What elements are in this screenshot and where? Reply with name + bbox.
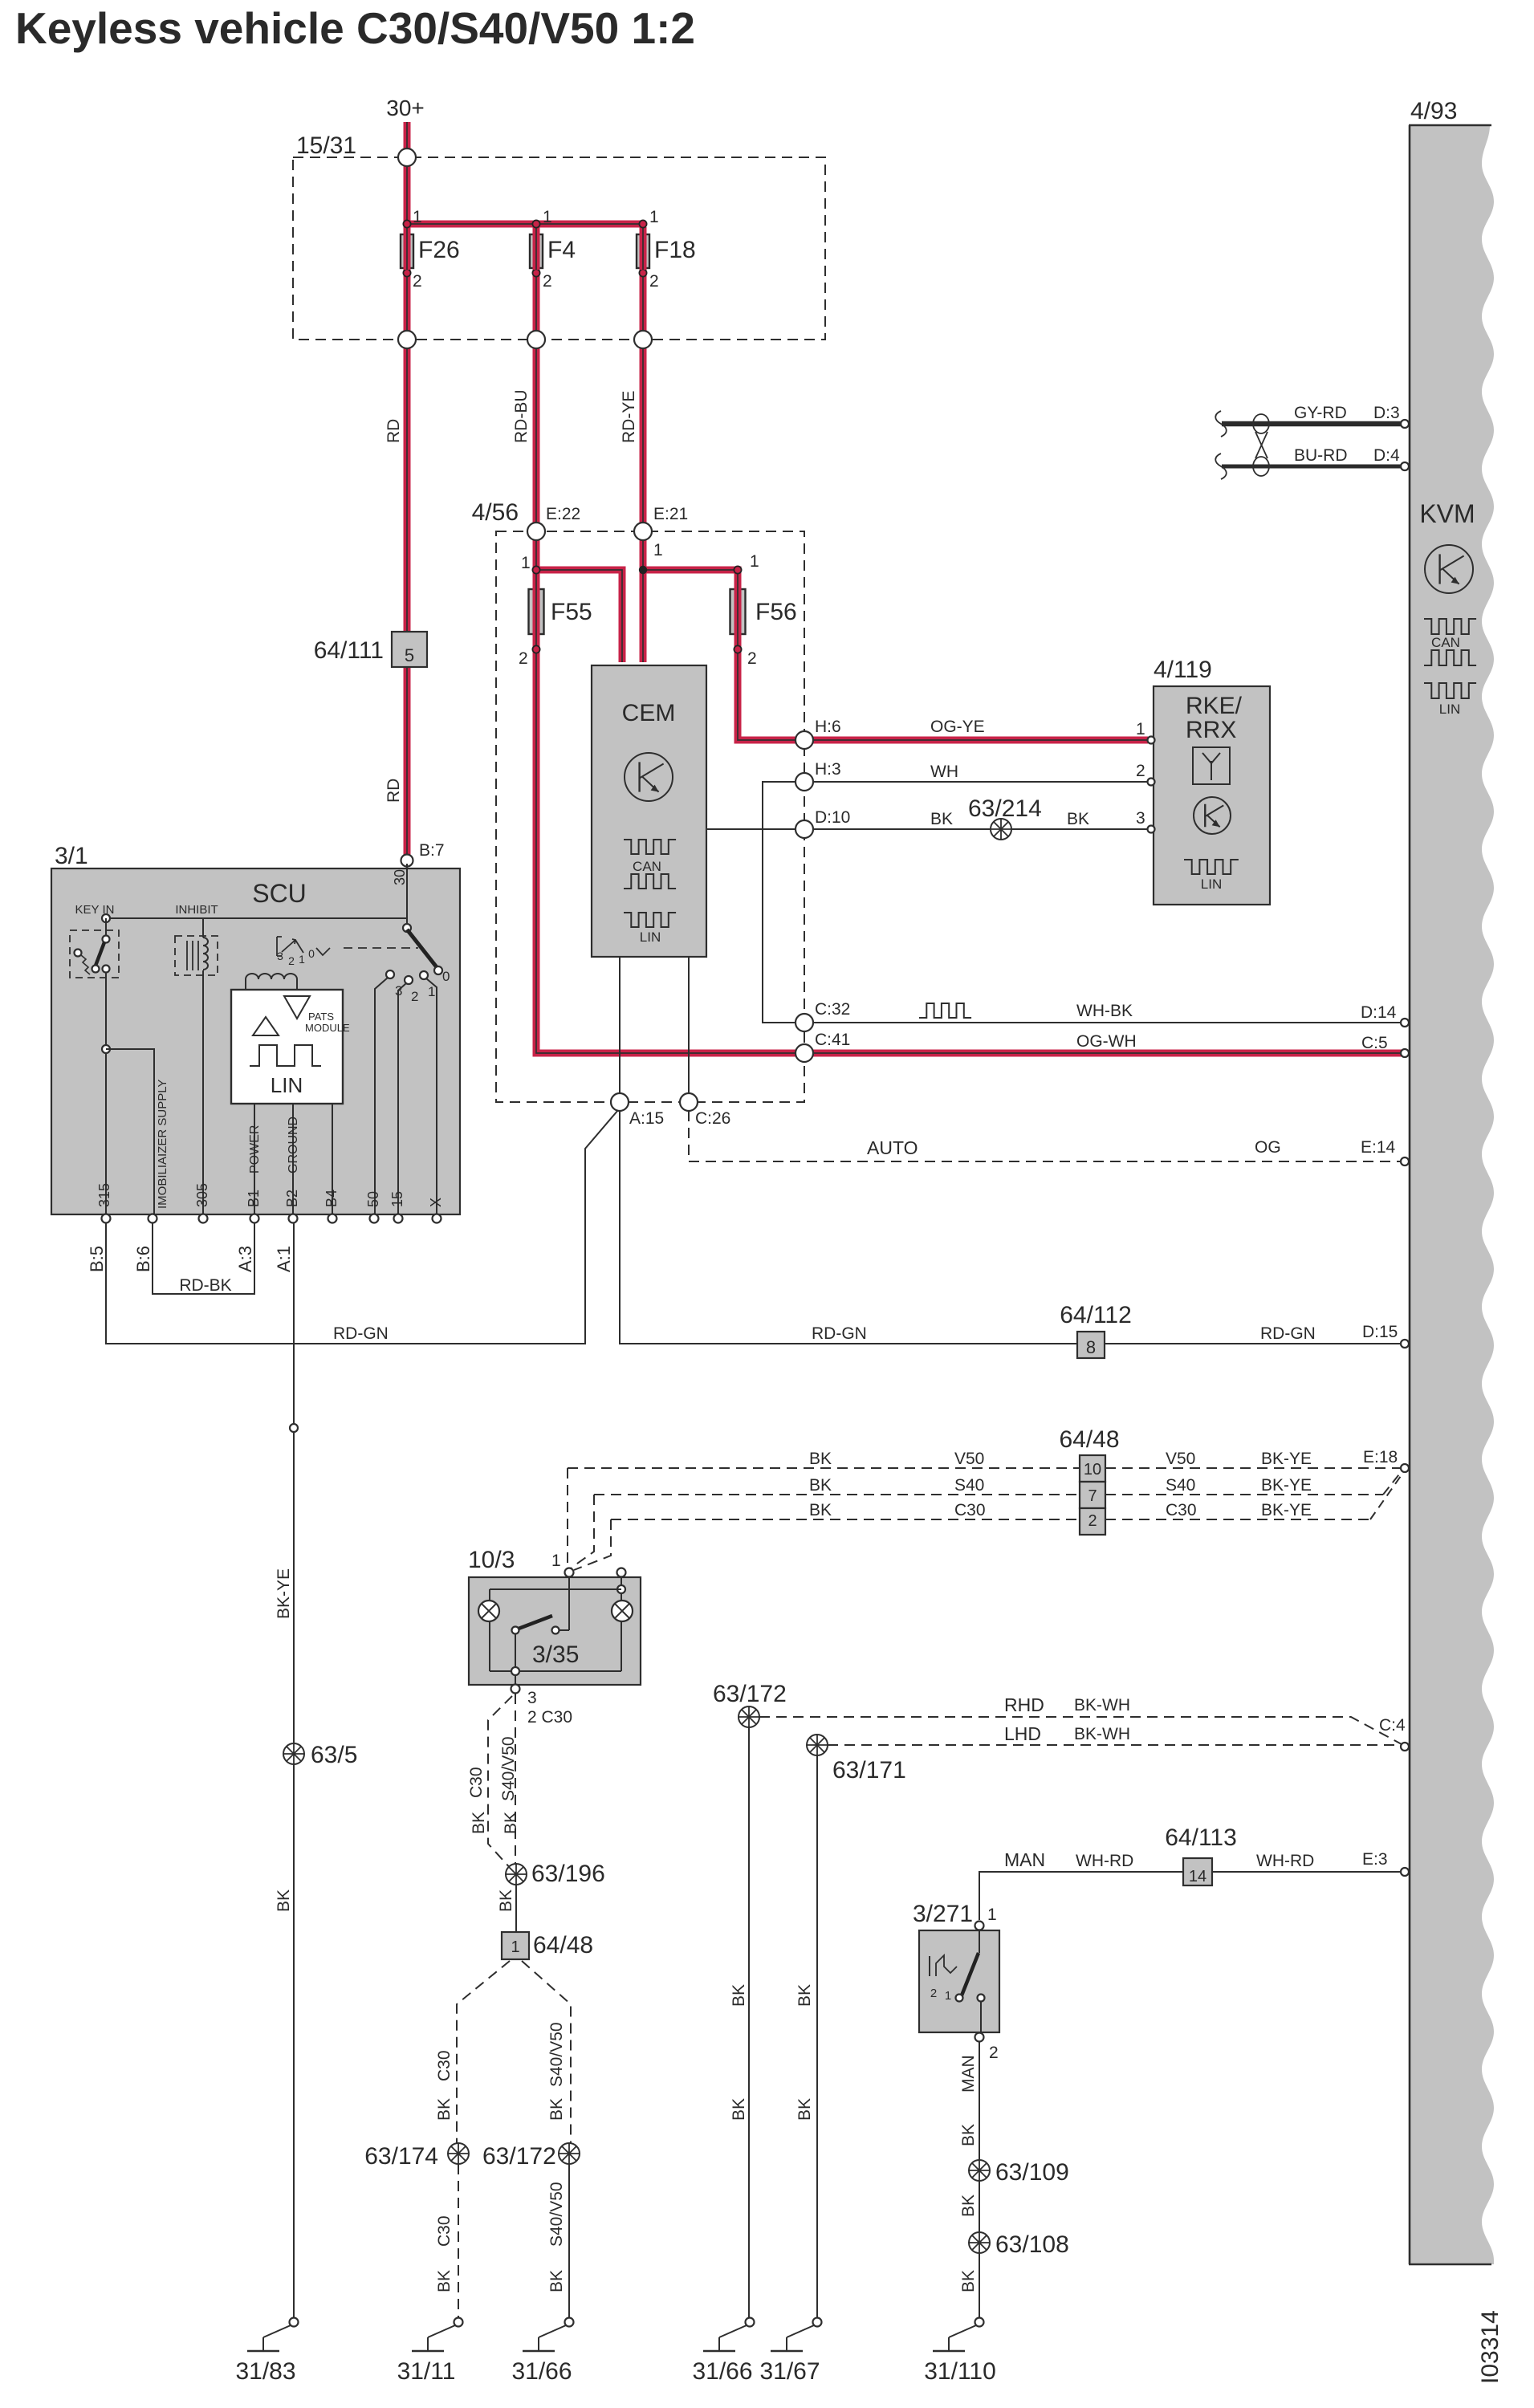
svg-text:F18: F18 xyxy=(654,237,696,263)
splice 63/172 upper xyxy=(739,1706,759,1727)
node E:22 xyxy=(527,523,545,540)
svg-text:LIN: LIN xyxy=(640,929,661,945)
svg-text:BK-YE: BK-YE xyxy=(1261,1450,1312,1468)
wire CEM to C:26 xyxy=(688,957,690,1096)
ground 31/110 xyxy=(975,2318,984,2327)
KVM pin D:15 xyxy=(1401,1340,1409,1348)
svg-text:LHD: LHD xyxy=(1004,1723,1041,1744)
svg-text:1: 1 xyxy=(750,552,759,571)
svg-text:LIN: LIN xyxy=(1439,702,1460,717)
svg-text:Keyless vehicle C30/S40/V50 1:: Keyless vehicle C30/S40/V50 1:2 xyxy=(15,3,695,53)
wire 30+ feed RD main vertical xyxy=(404,122,411,856)
splice 63/214 xyxy=(991,819,1011,840)
svg-text:14: 14 xyxy=(1189,1868,1206,1885)
svg-text:C:41: C:41 xyxy=(815,1031,850,1049)
svg-text:5: 5 xyxy=(405,645,414,665)
svg-text:C30: C30 xyxy=(1166,1501,1197,1519)
splice 63/171 xyxy=(807,1735,828,1755)
wire through fuse F26 xyxy=(404,233,411,270)
svg-text:1: 1 xyxy=(428,984,435,999)
node C:26 xyxy=(680,1093,698,1111)
svg-text:I03314: I03314 xyxy=(1477,2310,1503,2384)
svg-text:OG: OG xyxy=(1255,1138,1281,1157)
svg-text:RD: RD xyxy=(385,779,403,803)
svg-text:KEY IN: KEY IN xyxy=(75,903,115,917)
svg-text:2: 2 xyxy=(649,272,659,291)
RKE antenna symbol xyxy=(1193,747,1230,784)
svg-text:CAN: CAN xyxy=(633,859,661,874)
svg-text:63/196: 63/196 xyxy=(531,1861,605,1887)
immobiliser supply branch xyxy=(106,1049,154,1214)
svg-text:B:7: B:7 xyxy=(419,841,445,860)
svg-text:H:6: H:6 xyxy=(815,718,841,736)
svg-text:3/271: 3/271 xyxy=(913,1901,973,1927)
ground 31/67 xyxy=(813,2318,822,2327)
svg-text:D:15: D:15 xyxy=(1362,1323,1398,1341)
svg-text:CAN: CAN xyxy=(1431,635,1460,650)
wire BK from 63/172 to ground xyxy=(748,1727,750,2317)
twisted pair symbol xyxy=(1253,414,1269,433)
wire BK from 63/171 to ground xyxy=(816,1755,818,2317)
svg-text:BK: BK xyxy=(809,1450,832,1468)
svg-text:S40/V50: S40/V50 xyxy=(547,2182,566,2247)
svg-text:31/66: 31/66 xyxy=(511,2358,572,2385)
SCU internal feed line from B:7 xyxy=(406,864,408,928)
svg-text:31/66: 31/66 xyxy=(692,2358,752,2385)
svg-text:2: 2 xyxy=(989,2044,999,2062)
svg-text:64/113: 64/113 xyxy=(1165,1824,1237,1851)
svg-text:LIN: LIN xyxy=(1201,877,1222,892)
PATS module box xyxy=(231,990,343,1104)
svg-text:BK: BK xyxy=(435,2270,454,2292)
fuse F4 xyxy=(532,220,539,227)
svg-text:RD-GN: RD-GN xyxy=(812,1324,867,1343)
svg-text:F26: F26 xyxy=(418,237,460,263)
svg-text:2: 2 xyxy=(1088,1512,1097,1530)
KVM key symbol xyxy=(1425,545,1473,593)
nodes at 15/31 bottom xyxy=(398,331,416,348)
svg-text:MODULE: MODULE xyxy=(305,1022,350,1034)
svg-text:4/93: 4/93 xyxy=(1410,98,1457,124)
svg-text:1: 1 xyxy=(521,554,531,572)
svg-text:BK: BK xyxy=(275,1889,293,1912)
svg-text:WH-BK: WH-BK xyxy=(1076,1002,1133,1020)
svg-text:RHD: RHD xyxy=(1004,1694,1044,1715)
svg-text:31/83: 31/83 xyxy=(235,2358,295,2385)
10/3 pin top right xyxy=(617,1568,626,1577)
wire RD-BK loop xyxy=(153,1222,254,1294)
svg-text:63/171: 63/171 xyxy=(832,1757,906,1784)
svg-text:1: 1 xyxy=(299,953,305,966)
wire BK to 64/48 pin1 xyxy=(515,1885,517,1932)
SCU internal top bus KEY IN / INHIBIT xyxy=(106,917,407,919)
svg-text:S40/V50: S40/V50 xyxy=(547,2022,566,2087)
PATS triangles xyxy=(253,1017,279,1035)
svg-text:MAN: MAN xyxy=(959,2055,978,2093)
svg-text:D:14: D:14 xyxy=(1361,1003,1397,1022)
svg-text:BK-YE: BK-YE xyxy=(275,1568,293,1619)
wire RD-GN right A:15 to D:15 xyxy=(620,1111,1077,1344)
svg-text:2 C30: 2 C30 xyxy=(527,1708,572,1727)
svg-text:POWER: POWER xyxy=(248,1125,262,1173)
wire red bus inside 15/31 xyxy=(407,221,643,228)
wire WH from H:3 to RKE pin2 xyxy=(804,781,1148,783)
10/3 pin 1 xyxy=(565,1568,574,1577)
wires BK-YE V50/S40/C30 dashed to E:18 xyxy=(1105,1467,1402,1469)
wire CEM to A:15 xyxy=(619,957,621,1096)
svg-text:B:6: B:6 xyxy=(133,1246,153,1272)
central electronic unit box 4/56 dashed outline xyxy=(496,531,804,1102)
svg-text:C30: C30 xyxy=(435,2215,454,2247)
svg-text:64/48: 64/48 xyxy=(1059,1426,1119,1453)
10/3 switch lever xyxy=(568,1576,570,1630)
module 3/1 SCU body xyxy=(51,868,460,1214)
svg-text:63/174: 63/174 xyxy=(364,2143,438,2170)
key-in switch output wire xyxy=(105,972,107,1214)
svg-text:GY-RD: GY-RD xyxy=(1294,404,1347,422)
svg-text:D:3: D:3 xyxy=(1373,404,1400,422)
svg-text:RKE/: RKE/ xyxy=(1186,693,1243,719)
svg-text:2: 2 xyxy=(519,649,528,668)
svg-text:B2: B2 xyxy=(284,1190,300,1207)
wire break squiggles xyxy=(1215,411,1227,437)
svg-text:1: 1 xyxy=(551,1552,561,1570)
svg-text:CEM: CEM xyxy=(622,700,676,726)
svg-text:X: X xyxy=(428,1198,444,1207)
svg-text:C:5: C:5 xyxy=(1361,1034,1388,1052)
wire branch junction1 to CEM left input xyxy=(536,570,622,662)
3/271 pin 2 xyxy=(975,2033,984,2042)
CEM CAN symbol xyxy=(624,840,676,854)
contact 1 wire to pin X xyxy=(426,978,437,1214)
svg-text:10/3: 10/3 xyxy=(468,1547,515,1573)
contact 2 wire to pin 15 xyxy=(398,983,406,1214)
svg-text:AUTO: AUTO xyxy=(867,1137,918,1158)
svg-text:4/56: 4/56 xyxy=(472,499,519,526)
svg-text:BK: BK xyxy=(1067,810,1089,828)
svg-text:50: 50 xyxy=(365,1191,381,1207)
svg-text:C30: C30 xyxy=(435,2050,454,2081)
junction dots before fuses F55/F56 xyxy=(532,566,539,573)
svg-text:E:14: E:14 xyxy=(1361,1138,1396,1157)
svg-text:31/67: 31/67 xyxy=(759,2358,820,2385)
svg-text:31/11: 31/11 xyxy=(397,2358,456,2385)
wire RD-YE / E:21 vertical into CEM xyxy=(640,227,647,662)
svg-text:30+: 30+ xyxy=(386,96,425,120)
node H:6 and wire OG-YE labels xyxy=(795,731,813,749)
svg-text:64/48: 64/48 xyxy=(533,1932,593,1959)
KVM pin C:5 xyxy=(1401,1049,1409,1057)
3/271 internal switch xyxy=(929,1956,930,1976)
svg-text:RRX: RRX xyxy=(1186,717,1236,743)
svg-text:F4: F4 xyxy=(547,237,576,263)
svg-text:3: 3 xyxy=(527,1689,537,1707)
svg-text:BK: BK xyxy=(547,2098,566,2121)
svg-text:OG-YE: OG-YE xyxy=(930,718,985,736)
svg-text:D:4: D:4 xyxy=(1373,446,1400,465)
SCU bottom pins xyxy=(102,1214,111,1223)
svg-text:BK: BK xyxy=(795,1984,814,2007)
svg-text:BK: BK xyxy=(959,2270,978,2292)
10/3 left lamp xyxy=(478,1601,499,1621)
svg-text:1: 1 xyxy=(987,1906,997,1924)
KVM pin E:14 xyxy=(1401,1157,1409,1165)
svg-text:BK: BK xyxy=(502,1812,520,1834)
svg-text:63/109: 63/109 xyxy=(995,2159,1069,2186)
module 4/119 RKE/RRX xyxy=(1154,686,1270,905)
svg-text:C30: C30 xyxy=(954,1501,986,1519)
svg-text:2: 2 xyxy=(411,989,418,1004)
svg-text:2: 2 xyxy=(413,272,422,291)
svg-text:BK: BK xyxy=(435,2098,454,2121)
svg-text:WH-RD: WH-RD xyxy=(1256,1852,1314,1870)
svg-text:KVM: KVM xyxy=(1419,499,1475,528)
inline connector 64/112 pin 8 xyxy=(1077,1332,1105,1358)
svg-text:1: 1 xyxy=(653,541,663,559)
wire BK-YE/BK from A:1 to ground 31/83 xyxy=(293,1222,295,2317)
svg-text:SCU: SCU xyxy=(252,879,307,908)
svg-text:1: 1 xyxy=(1136,720,1145,738)
svg-text:1: 1 xyxy=(511,1938,519,1956)
RKE pins 1 2 3 xyxy=(1148,737,1155,744)
splice 63/174 xyxy=(448,2143,469,2164)
svg-text:BK: BK xyxy=(959,2194,978,2217)
KVM pin D:3 xyxy=(1401,420,1409,428)
wire WH-BK from C:32 to D:14 xyxy=(804,1022,1402,1023)
svg-text:RD-BK: RD-BK xyxy=(179,1276,231,1295)
wires BK V50/S40/C30 dashed to 64/48 xyxy=(568,1467,1080,1469)
fuse F56 xyxy=(730,589,746,634)
svg-text:IMOBILIAIZER SUPPLY: IMOBILIAIZER SUPPLY xyxy=(156,1080,169,1209)
svg-text:BK: BK xyxy=(930,810,953,828)
svg-text:1: 1 xyxy=(945,1989,951,2003)
CEM LIN symbol xyxy=(624,913,676,927)
10/3 internal circuit xyxy=(621,1576,622,1671)
svg-text:RD-BU: RD-BU xyxy=(512,390,531,444)
CEM key symbol xyxy=(625,753,673,801)
svg-text:BK-YE: BK-YE xyxy=(1261,1501,1312,1519)
svg-text:BK-WH: BK-WH xyxy=(1074,1725,1130,1743)
svg-text:PATS: PATS xyxy=(308,1011,334,1023)
svg-text:V50: V50 xyxy=(1166,1450,1195,1468)
svg-text:4/119: 4/119 xyxy=(1154,657,1212,683)
ignition contacts 3 2 1 xyxy=(386,970,394,978)
wire F56 branch OG-YE xyxy=(643,570,1148,740)
splice 63/5 xyxy=(283,1743,304,1764)
splice 63/196 xyxy=(506,1864,527,1885)
svg-text:C30: C30 xyxy=(467,1767,486,1798)
svg-text:30: 30 xyxy=(392,869,408,885)
10/3 right lamp xyxy=(612,1601,633,1621)
svg-text:1: 1 xyxy=(413,208,422,226)
wire RD-GN left loop B:5 to A:15 xyxy=(106,1110,618,1344)
svg-text:8: 8 xyxy=(1086,1337,1096,1357)
svg-text:3/1: 3/1 xyxy=(55,843,88,869)
wire through fuse F56 xyxy=(734,588,742,636)
svg-text:E:22: E:22 xyxy=(546,505,580,523)
ignition interlock dashed link xyxy=(344,947,418,949)
svg-text:F56: F56 xyxy=(755,599,797,625)
svg-text:A:3: A:3 xyxy=(235,1246,255,1272)
svg-text:GROUND: GROUND xyxy=(287,1117,300,1173)
wire through fuse F18 xyxy=(640,233,647,270)
fuse F18 xyxy=(639,220,646,227)
svg-text:E:18: E:18 xyxy=(1363,1448,1398,1466)
svg-text:BK: BK xyxy=(959,2124,978,2146)
signal symbol on C:32 wire xyxy=(919,1003,971,1018)
KVM pin E:3 xyxy=(1401,1868,1409,1876)
KVM pin D:14 xyxy=(1401,1019,1409,1027)
svg-text:BK-YE: BK-YE xyxy=(1261,1476,1312,1495)
svg-text:RD-YE: RD-YE xyxy=(620,391,638,443)
svg-text:BK: BK xyxy=(795,2098,814,2121)
inline connector 64/48 pin 1 xyxy=(502,1932,529,1959)
dashed split below 64/48 xyxy=(457,1961,510,2151)
svg-text:15: 15 xyxy=(389,1191,405,1207)
svg-text:LIN: LIN xyxy=(271,1073,303,1097)
svg-text:C:26: C:26 xyxy=(695,1109,730,1128)
svg-text:BK: BK xyxy=(809,1501,832,1519)
wire BK S40/V50 dashed branch xyxy=(515,1694,516,1864)
svg-text:BK: BK xyxy=(809,1476,832,1495)
svg-text:E:21: E:21 xyxy=(653,505,688,523)
fuse F26 xyxy=(403,220,410,227)
svg-text:C:32: C:32 xyxy=(815,1000,850,1019)
svg-text:3: 3 xyxy=(1136,809,1145,828)
svg-text:3: 3 xyxy=(277,950,283,962)
svg-text:BU-RD: BU-RD xyxy=(1294,446,1348,465)
wire S40/V50 to ground 31/66 xyxy=(568,2164,570,2317)
svg-text:2: 2 xyxy=(747,649,757,668)
svg-text:315: 315 xyxy=(96,1183,112,1207)
svg-text:D:10: D:10 xyxy=(815,808,850,827)
RKE LIN symbol xyxy=(1184,860,1239,874)
svg-text:H:3: H:3 xyxy=(815,760,841,779)
svg-text:63/172: 63/172 xyxy=(713,1681,787,1707)
wire GY-RD thick xyxy=(1222,421,1402,427)
switch module 3/271 body xyxy=(919,1930,999,2032)
PATS square wave xyxy=(250,1045,321,1066)
left drop verticals into 10/3 pin 1 xyxy=(567,1468,568,1568)
svg-text:10: 10 xyxy=(1084,1461,1101,1479)
svg-text:64/111: 64/111 xyxy=(314,637,384,664)
inline connector 64/111 pin 5 xyxy=(392,632,427,667)
svg-text:2: 2 xyxy=(1136,762,1145,780)
svg-text:1: 1 xyxy=(649,208,659,226)
svg-text:BK: BK xyxy=(470,1812,488,1834)
svg-text:WH-RD: WH-RD xyxy=(1076,1852,1133,1870)
svg-text:OG-WH: OG-WH xyxy=(1076,1032,1137,1051)
node E:21 xyxy=(634,523,652,540)
svg-text:2: 2 xyxy=(543,272,552,291)
svg-text:0: 0 xyxy=(442,969,450,984)
wire AUTO OG dashed from C:26 to E:14 xyxy=(689,1111,1402,1161)
wire BK C30 dashed branch xyxy=(488,1696,512,1870)
svg-text:MAN: MAN xyxy=(1004,1849,1045,1870)
KVM pin E:18 xyxy=(1401,1464,1409,1472)
PATS pin wires B1 B2 B4 xyxy=(254,1104,255,1214)
svg-text:B:5: B:5 xyxy=(87,1246,107,1272)
wire dashed C30 to ground 31/11 xyxy=(458,2164,459,2317)
svg-text:1: 1 xyxy=(543,208,552,226)
svg-text:A:1: A:1 xyxy=(274,1246,294,1272)
svg-text:INHIBIT: INHIBIT xyxy=(175,903,218,917)
RKE key symbol xyxy=(1194,797,1231,834)
svg-text:V50: V50 xyxy=(954,1450,984,1468)
node C:41 red wire OG-WH xyxy=(795,1044,813,1062)
fusebox 15/31 dashed outline xyxy=(293,157,825,340)
wire through fuse F55 xyxy=(533,588,540,636)
svg-text:63/5: 63/5 xyxy=(311,1742,357,1768)
svg-text:F55: F55 xyxy=(551,599,592,625)
svg-text:E:3: E:3 xyxy=(1362,1850,1388,1869)
node A:15 xyxy=(611,1093,629,1111)
svg-text:B1: B1 xyxy=(246,1190,262,1207)
svg-text:BK: BK xyxy=(730,2098,748,2121)
module CEM body xyxy=(592,665,706,957)
svg-text:BK: BK xyxy=(497,1889,515,1912)
PATS inductor on top xyxy=(246,974,297,990)
node B:7 xyxy=(401,855,413,867)
splice 63/108 xyxy=(969,2232,990,2253)
inhibit coil xyxy=(202,918,204,938)
wire MAN WH-RD from 3/271 to E:3 xyxy=(979,1872,1183,1920)
svg-text:7: 7 xyxy=(1088,1487,1097,1505)
wire through fuse F4 xyxy=(533,233,540,270)
svg-text:BK: BK xyxy=(547,2270,566,2292)
wire LHD BK-WH dashed to C:4 xyxy=(828,1744,1402,1746)
wire BK from CEM to D:10 to RKE pin3 xyxy=(706,828,1148,830)
svg-text:63/214: 63/214 xyxy=(968,795,1042,822)
svg-text:2: 2 xyxy=(288,954,295,967)
module 4/93 KVM body xyxy=(1410,125,1494,2264)
svg-text:A:15: A:15 xyxy=(629,1109,664,1128)
splice 63/109 xyxy=(969,2160,990,2181)
fuse F55 xyxy=(529,589,544,634)
ground 31/83 xyxy=(290,2318,299,2327)
10/3 pin 3 xyxy=(515,1675,516,1685)
inline connector 64/113 pin 14 xyxy=(1183,1858,1212,1885)
wire MAN/BK from 3/271 to ground 31/110 xyxy=(979,2042,980,2317)
3/271 pin 1 xyxy=(975,1922,984,1930)
KVM LIN symbol xyxy=(1424,683,1476,698)
svg-text:BK: BK xyxy=(730,1984,748,2007)
svg-text:31/110: 31/110 xyxy=(924,2358,996,2385)
wire BU-RD thick xyxy=(1222,465,1402,469)
svg-text:3/35: 3/35 xyxy=(532,1641,579,1668)
splice 63/172 lower xyxy=(559,2143,580,2164)
svg-text:63/108: 63/108 xyxy=(995,2231,1069,2258)
svg-text:B4: B4 xyxy=(323,1190,340,1207)
KVM pin D:4 xyxy=(1401,462,1409,470)
wire WH loop H:3 to C:32 xyxy=(763,782,804,1023)
node at 15/31 top xyxy=(398,148,416,166)
svg-text:RD-GN: RD-GN xyxy=(333,1324,389,1343)
svg-text:BK-WH: BK-WH xyxy=(1074,1696,1130,1714)
KVM pin C:4 xyxy=(1401,1743,1409,1751)
ground 31/66 left xyxy=(565,2318,574,2327)
svg-text:15/31: 15/31 xyxy=(296,132,356,159)
ground 31/66 right xyxy=(746,2318,755,2327)
svg-text:S40/V50: S40/V50 xyxy=(499,1736,518,1801)
svg-text:S40: S40 xyxy=(1166,1476,1195,1495)
svg-text:RD: RD xyxy=(385,419,403,443)
svg-text:C:4: C:4 xyxy=(1379,1716,1406,1735)
wire RD-BU / F55 branch vertical xyxy=(536,227,1402,1053)
svg-text:RD-GN: RD-GN xyxy=(1260,1324,1316,1343)
svg-text:2: 2 xyxy=(930,1987,937,2000)
contact 3 wire to pin 50 xyxy=(375,978,388,1214)
